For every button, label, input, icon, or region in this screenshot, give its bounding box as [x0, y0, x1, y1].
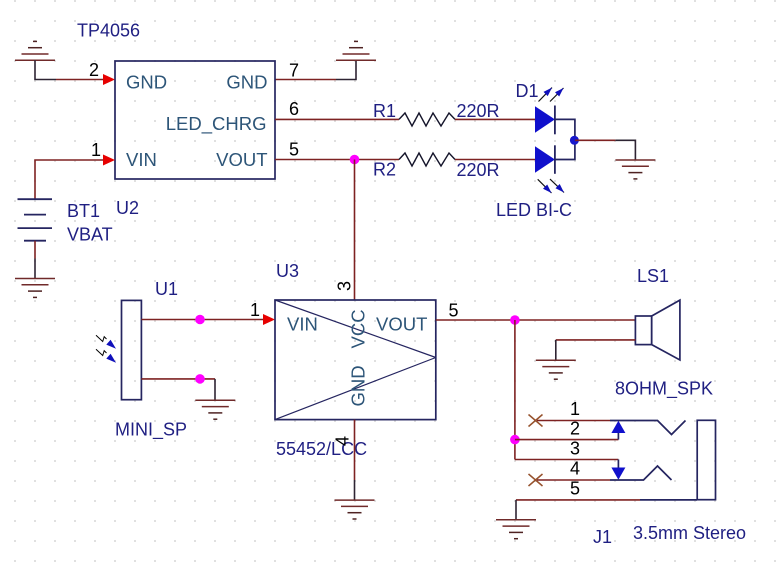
- junction VOUT (magenta): [510, 315, 520, 325]
- jack J1 sleeve pin: [640, 499, 697, 501]
- pin arrow U3 pin 1: [263, 314, 275, 325]
- svg-text:U1: U1: [155, 279, 178, 299]
- mic sound arrow 2: [96, 349, 116, 362]
- ground stub G8 (dark): [515, 500, 517, 520]
- wire jack pin 5 (sleeve) to ground: [516, 499, 640, 501]
- svg-text:2: 2: [570, 419, 580, 439]
- wire pin2 net: ground to U2 pin 2: [56, 79, 103, 81]
- junction mic output (magenta): [195, 315, 205, 325]
- svg-text:U2: U2: [116, 198, 139, 218]
- svg-text:VOUT: VOUT: [216, 149, 267, 170]
- wire jack pin 2: [515, 439, 619, 441]
- svg-text:7: 7: [289, 61, 299, 81]
- amplifier U3 body: [275, 300, 436, 420]
- jack J1 tip arrow (up): [611, 421, 625, 433]
- ground stub G1 (dark): [35, 60, 56, 79]
- LED D1 top diode triangle: [535, 106, 555, 132]
- svg-text:2: 2: [89, 60, 99, 80]
- ground GND-8 jack: [496, 520, 536, 539]
- svg-text:55452/LCC: 55452/LCC: [276, 439, 367, 459]
- svg-text:VOUT: VOUT: [376, 314, 427, 335]
- speaker LS1 body: [635, 316, 651, 345]
- LED D1 emission arrows top: [539, 88, 564, 102]
- speaker LS1 horn: [652, 300, 680, 360]
- wire battery to ground: [34, 241, 36, 259]
- wire pin5 net: U2 pin 5 to R2: [275, 159, 399, 161]
- jack J1 ring arrow (down): [611, 468, 625, 480]
- wire speaker return to ground: [556, 339, 636, 341]
- svg-text:5: 5: [289, 140, 299, 160]
- svg-text:J1: J1: [593, 527, 612, 547]
- svg-text:U3: U3: [276, 261, 299, 281]
- junction LED cathode (blue): [570, 136, 579, 145]
- IC U2 TP4056 body: [115, 61, 275, 179]
- wire pin7 net: U2 pin 7 to ground: [275, 79, 336, 81]
- LED D1 bottom diode triangle: [535, 146, 555, 172]
- wire R1 to LED D1 anode (top): [455, 118, 535, 120]
- svg-text:220R: 220R: [457, 101, 500, 121]
- ground GND-5 mic: [195, 400, 235, 419]
- jack J1 tip switch contact: [610, 421, 686, 435]
- svg-text:GND: GND: [226, 72, 267, 93]
- battery BT1: [18, 199, 53, 241]
- svg-text:VBAT: VBAT: [67, 225, 113, 245]
- wire pin6 net: U2 pin 6 to R1: [275, 118, 399, 120]
- wire LED cathode to ground: [575, 139, 616, 141]
- ground stub G6 (dark): [354, 480, 356, 500]
- svg-text:R1: R1: [373, 101, 396, 121]
- ground GND-6 U3: [335, 500, 375, 519]
- wire VCC net: junction down to U3 pin 3: [354, 160, 356, 301]
- svg-text:8OHM_SPK: 8OHM_SPK: [615, 379, 713, 400]
- wire U1 output to U3 pin 1: [141, 319, 263, 321]
- svg-text:3.5mm Stereo: 3.5mm Stereo: [633, 523, 746, 543]
- ground stub G7 (dark): [555, 340, 557, 360]
- junction pin5/VCC (magenta): [350, 155, 360, 165]
- jack J1 sleeve body: [697, 420, 715, 499]
- pin arrow U2 pin 1: [103, 155, 115, 166]
- mic sound arrow 1: [96, 335, 116, 348]
- junction jack pin2 (magenta): [510, 435, 520, 445]
- svg-text:3: 3: [570, 439, 580, 459]
- svg-text:GND: GND: [126, 72, 167, 93]
- wire jack pin 4: [537, 479, 610, 481]
- ground stub G5 (dark): [214, 379, 216, 400]
- wire VOUT net vertical to jack: [514, 320, 516, 460]
- svg-text:BT1: BT1: [67, 201, 100, 221]
- svg-text:220R: 220R: [457, 160, 500, 180]
- svg-text:LED BI-C: LED BI-C: [496, 200, 572, 220]
- ground GND-1 top-left (inverted, wire below): [15, 41, 55, 60]
- svg-text:LS1: LS1: [637, 266, 669, 286]
- svg-text:R2: R2: [373, 160, 396, 180]
- jack J1 ring contact stem: [617, 460, 619, 468]
- svg-text:MINI_SP: MINI_SP: [115, 420, 187, 441]
- svg-text:3: 3: [335, 281, 355, 291]
- wire jack pin 3: [515, 459, 619, 461]
- svg-text:GND: GND: [348, 365, 369, 406]
- wire R2 to LED D1 anode (bottom): [455, 159, 535, 161]
- junction mic ground (magenta): [195, 374, 205, 384]
- LED D1 top cathode bar: [554, 106, 556, 135]
- ground stub G4 (dark): [615, 140, 635, 160]
- svg-text:4: 4: [570, 459, 580, 479]
- resistor R2: [399, 153, 455, 166]
- jack J1 pin 4 no-connect X: [529, 474, 543, 486]
- wire U3 pin 4 to ground: [354, 420, 356, 480]
- jack J1 ring switch contact: [610, 466, 672, 480]
- svg-text:1: 1: [91, 140, 101, 160]
- ground GND-7 speaker: [536, 360, 576, 379]
- wire jack pin 1: [537, 420, 610, 422]
- amplifier U3 triangle diagonals: [275, 300, 436, 358]
- svg-text:VIN: VIN: [287, 314, 318, 335]
- wire cathode bracket: [555, 119, 575, 159]
- svg-text:VIN: VIN: [126, 149, 157, 170]
- svg-text:5: 5: [570, 479, 580, 499]
- svg-text:LED_CHRG: LED_CHRG: [166, 113, 267, 135]
- svg-text:TP4056: TP4056: [77, 21, 140, 41]
- ground GND-2 top-right (inverted, wire below): [336, 41, 376, 60]
- svg-text:4: 4: [333, 436, 353, 446]
- svg-text:5: 5: [449, 301, 459, 321]
- LED D1 bottom cathode bar: [554, 145, 556, 174]
- pin arrow U2 pin 2: [103, 74, 115, 85]
- jack J1 tip contact stem: [617, 433, 619, 440]
- jack J1 pin 1 no-connect X: [529, 415, 543, 427]
- svg-text:6: 6: [289, 99, 299, 119]
- ground stub G3 (dark): [34, 259, 36, 279]
- microphone U1 MINI_SP body: [122, 300, 142, 399]
- resistor R1: [399, 113, 455, 126]
- svg-text:1: 1: [570, 399, 580, 419]
- wire U1 ground lead: [141, 378, 215, 380]
- ground GND-3 below battery: [15, 279, 55, 298]
- wire pin1 net: battery to U2 pin 1: [35, 160, 103, 199]
- LED D1 emission arrows bottom: [538, 179, 564, 193]
- ground stub G2 (dark): [336, 60, 356, 79]
- ground GND-4 LED net: [615, 160, 655, 179]
- svg-text:1: 1: [250, 300, 260, 320]
- wire VOUT net: U3 pin 5 to speaker: [436, 319, 636, 321]
- svg-text:VCC: VCC: [348, 309, 369, 348]
- svg-text:D1: D1: [516, 81, 539, 101]
